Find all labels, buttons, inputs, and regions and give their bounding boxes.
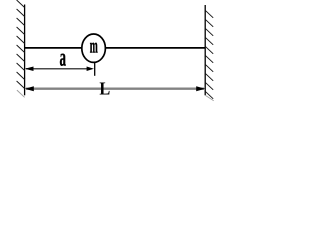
dimension a left arrowhead [25,67,34,71]
left wall faint partial hatch [17,90,25,97]
dimension line a [26,68,92,70]
label L [99,78,110,98]
svg-text:L: L [99,78,110,98]
dimension a right arrowhead [87,67,94,71]
dimension line L [26,87,204,89]
left wall [24,5,26,96]
mass m circle [82,34,106,62]
wire between walls [25,47,206,49]
dimension L left arrowhead [25,86,34,91]
extension line below mass [94,62,96,76]
label m [90,35,98,58]
dimension L right arrowhead [196,86,205,91]
right wall hatching [205,10,213,99]
svg-text:a: a [60,43,67,72]
svg-text:m: m [90,35,98,58]
right wall faint partial hatch [205,95,213,100]
right wall [204,5,206,95]
left wall hatching [17,0,25,89]
label a [60,43,67,72]
